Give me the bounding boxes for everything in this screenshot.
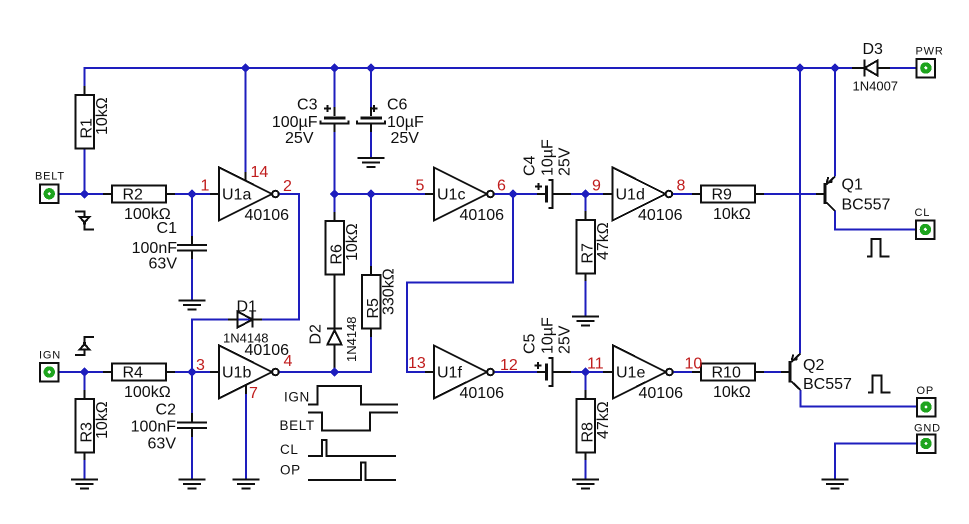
pin 1 label <box>201 178 210 195</box>
pin stub U1d input <box>603 193 613 195</box>
pin 11 label <box>587 356 604 373</box>
svg-text:D1: D1 <box>237 299 258 316</box>
svg-text:2: 2 <box>283 178 292 195</box>
wire U1e output to R10 <box>673 371 701 373</box>
svg-text:D3: D3 <box>863 41 884 58</box>
ground under U1b pin7 <box>233 480 260 489</box>
svg-text:13: 13 <box>408 355 426 372</box>
wire GND pad to ground symbol <box>835 444 916 480</box>
wire Q1 collector to CL pad <box>835 211 916 230</box>
pin stub R3 leads <box>84 390 86 460</box>
wire U1b pin7 to ground <box>245 385 247 480</box>
svg-text:100kΩ: 100kΩ <box>124 384 171 401</box>
wire C6 top drop from rail <box>370 68 372 114</box>
svg-text:10: 10 <box>685 356 703 373</box>
wire rail drop to Q1 emitter <box>834 68 836 177</box>
svg-text:100nF: 100nF <box>131 419 177 436</box>
svg-text:7: 7 <box>249 385 258 402</box>
svg-text:OP: OP <box>917 385 935 397</box>
pin stub U1b input <box>210 371 219 373</box>
wire C3 top drop from rail <box>334 68 336 114</box>
waveform label BELT <box>280 418 315 433</box>
waveform label IGN <box>284 390 310 405</box>
wire R7 top lead <box>585 194 587 220</box>
pin 3 label <box>196 357 205 374</box>
wire R9 to Q1 base <box>755 193 823 195</box>
wire Q2 collector to OP pad <box>801 390 918 407</box>
wire C5 to U1e input node11 <box>553 371 608 373</box>
svg-text:10kΩ: 10kΩ <box>94 401 111 439</box>
wire R8 bottom lead to ground <box>585 453 587 480</box>
wire R1 bottom lead <box>84 149 86 195</box>
resistor R8 47k vertical <box>576 399 612 453</box>
resistor R6 10k vertical <box>325 221 361 275</box>
op-amp U1f inverter <box>434 346 504 403</box>
junction node 5 C3/R6 <box>330 189 339 198</box>
resistor R10 10k <box>701 364 755 402</box>
pad BELT <box>35 171 65 204</box>
svg-text:BELT: BELT <box>35 171 65 183</box>
svg-text:3: 3 <box>196 357 205 374</box>
svg-text:100nF: 100nF <box>132 240 178 257</box>
svg-text:R4: R4 <box>123 365 144 382</box>
pin 2 label <box>283 178 292 195</box>
resistor R5 330k vertical <box>362 268 398 328</box>
svg-text:40106: 40106 <box>460 207 505 224</box>
svg-text:D2: D2 <box>308 324 325 345</box>
svg-text:1: 1 <box>201 178 210 195</box>
wire R3 bottom lead to ground <box>84 453 86 480</box>
wire U1d output to R9 <box>673 193 701 195</box>
junction node IGN/R3/R4 <box>80 367 89 376</box>
ground under C1 <box>179 301 206 310</box>
svg-text:Q2: Q2 <box>803 357 824 374</box>
pin stub R9 leads <box>692 193 764 195</box>
op-amp U1b inverter <box>219 342 289 399</box>
ground under R8 <box>572 480 599 489</box>
svg-text:IGN: IGN <box>284 390 310 405</box>
svg-text:25V: 25V <box>557 325 574 354</box>
wire D1 anode to node 3 <box>192 320 250 373</box>
svg-text:10kΩ: 10kΩ <box>94 97 111 135</box>
pin stub Q2 base <box>781 371 789 373</box>
resistor R2 100k <box>112 186 171 224</box>
pin stub R5 leads <box>370 266 372 337</box>
pin stub R10 leads <box>692 371 764 373</box>
wire node5 rail C3-R6-R5 to U1c <box>335 123 431 275</box>
svg-text:10µF: 10µF <box>540 317 557 354</box>
pad GND <box>914 423 941 453</box>
capacitor C5 10uF polarized <box>522 317 574 386</box>
pin stub D3 leads <box>852 67 890 69</box>
svg-text:C5: C5 <box>522 333 539 354</box>
resistor R9 10k <box>701 186 755 224</box>
svg-text:U1d: U1d <box>616 187 645 204</box>
ground under R7 <box>572 317 599 326</box>
svg-text:47kΩ: 47kΩ <box>595 222 612 260</box>
svg-text:40106: 40106 <box>245 342 290 359</box>
wire R6 to D2 cathode <box>334 275 336 329</box>
ground under C6 <box>358 158 385 167</box>
pin stub R7 leads <box>585 211 587 281</box>
op-amp U1c inverter <box>434 168 504 225</box>
op-amp U1d inverter <box>613 168 683 225</box>
wire C6 bottom lead to ground <box>370 123 372 158</box>
capacitor C6 10uF polarized <box>357 97 424 148</box>
pin 14 label <box>251 164 269 181</box>
pin stub U1c input <box>425 193 434 195</box>
pin stub R6 leads <box>334 212 336 221</box>
pin stub C2 leads <box>191 413 193 437</box>
op-amp U1e inverter <box>613 346 683 403</box>
pin 5 label <box>416 178 425 195</box>
svg-text:1N4007: 1N4007 <box>853 79 899 94</box>
pad OP <box>917 385 936 416</box>
svg-text:25V: 25V <box>285 130 314 147</box>
svg-text:U1e: U1e <box>616 365 645 382</box>
junction node BELT/R1/R2 <box>80 189 89 198</box>
svg-text:40106: 40106 <box>639 385 684 402</box>
diode D2 1N4148 vertical <box>308 316 360 362</box>
svg-text:C6: C6 <box>387 97 408 114</box>
transistor Q1 BC557 <box>824 177 891 214</box>
svg-text:U1c: U1c <box>437 187 465 204</box>
junction node 11 C5/R8/U1e <box>581 367 590 376</box>
svg-text:10kΩ: 10kΩ <box>713 206 751 223</box>
junction node 5 R5 <box>366 189 375 198</box>
svg-text:PWR: PWR <box>916 46 944 58</box>
svg-text:8: 8 <box>677 178 686 195</box>
svg-text:R7: R7 <box>580 243 597 264</box>
wire U1a output to D1 feedback <box>240 194 299 320</box>
svg-text:47kΩ: 47kΩ <box>595 401 612 439</box>
waveform trace CL <box>308 440 396 456</box>
svg-text:11: 11 <box>587 356 604 373</box>
svg-text:R5: R5 <box>365 298 382 319</box>
waveform label CL <box>280 442 298 457</box>
svg-text:GND: GND <box>914 423 941 435</box>
pad IGN <box>39 350 61 382</box>
waveform trace IGN <box>308 386 398 405</box>
wire U1a pin14 drop from rail <box>245 68 247 176</box>
svg-text:63V: 63V <box>148 436 177 453</box>
junction junction rail Q2 <box>795 63 804 72</box>
pin stub U1b pin7 <box>245 385 247 394</box>
resistor R3 10k vertical <box>75 399 111 453</box>
junction junction rail pin14 <box>241 63 250 72</box>
pad CL <box>915 207 935 239</box>
wire R8 top lead <box>585 372 587 399</box>
svg-text:BELT: BELT <box>280 418 315 433</box>
wire C2 bottom lead to ground <box>191 430 193 480</box>
wire C1 top lead <box>191 194 193 244</box>
pin stub C4 leads <box>537 193 571 195</box>
ground under R3 <box>71 480 98 489</box>
pin stub U1e input <box>603 371 613 373</box>
pin stub D1 leads <box>228 319 262 321</box>
wire U1f output to C5 <box>494 371 545 373</box>
pin stub C1 leads <box>191 236 193 259</box>
svg-text:R8: R8 <box>580 422 597 443</box>
svg-text:14: 14 <box>251 164 269 181</box>
op-amp U1a inverter <box>219 168 289 225</box>
svg-text:R1: R1 <box>79 118 96 139</box>
pin 7 label <box>249 385 258 402</box>
pin stub R8 leads <box>585 390 587 460</box>
svg-text:100µF: 100µF <box>272 114 318 131</box>
waveform label OP <box>280 463 301 478</box>
svg-text:10kΩ: 10kΩ <box>713 384 751 401</box>
pulse glyph at OP output <box>868 376 891 393</box>
svg-text:U1b: U1b <box>222 365 251 382</box>
junction junction rail C6 <box>366 63 375 72</box>
ground GND net <box>822 480 849 489</box>
wire U1c output to C4 <box>494 193 545 195</box>
wire C1 bottom lead to ground <box>191 252 193 301</box>
pin stub R1 top <box>84 86 86 95</box>
svg-text:40106: 40106 <box>638 207 683 224</box>
waveform trace OP <box>308 463 396 481</box>
svg-text:U1f: U1f <box>437 365 462 382</box>
wire R3 top lead <box>84 372 86 399</box>
svg-text:R2: R2 <box>123 187 144 204</box>
capacitor C2 100nF <box>131 402 207 453</box>
svg-text:R6: R6 <box>329 244 346 265</box>
pulse glyph at CL output <box>867 239 890 257</box>
svg-text:10kΩ: 10kΩ <box>344 223 361 261</box>
svg-text:40106: 40106 <box>460 385 505 402</box>
pin 8 label <box>677 178 686 195</box>
capacitor C4 10uF polarized <box>522 139 574 208</box>
wire +V rail corner down to R1 <box>84 67 86 88</box>
wire node6 jog down to U1f pin13 <box>407 194 513 372</box>
svg-text:10µF: 10µF <box>387 114 424 131</box>
pin 10 label <box>685 356 703 373</box>
svg-text:Q1: Q1 <box>842 177 863 194</box>
svg-text:BC557: BC557 <box>842 197 891 214</box>
svg-text:IGN: IGN <box>39 350 61 362</box>
resistor R4 100k <box>112 364 171 402</box>
capacitor C3 100uF polarized <box>272 97 349 148</box>
wire C4 to U1d input node9 <box>553 193 608 195</box>
pin stub C5 leads <box>537 371 571 373</box>
wire D3 cathode to PWR pad <box>879 67 917 69</box>
pin stub U1a pin14 <box>245 172 247 181</box>
pad PWR <box>916 46 944 78</box>
svg-text:330kΩ: 330kΩ <box>381 268 398 315</box>
svg-text:12: 12 <box>500 357 518 374</box>
transistor Q2 BC557 <box>789 354 853 394</box>
switch symbol IGN <box>75 337 94 355</box>
svg-text:10µF: 10µF <box>540 139 557 176</box>
switch symbol BELT <box>75 212 94 230</box>
svg-text:C2: C2 <box>156 402 177 419</box>
svg-text:5: 5 <box>416 178 425 195</box>
svg-text:OP: OP <box>280 463 301 478</box>
svg-text:25V: 25V <box>391 130 420 147</box>
diode D1 1N4148 <box>223 299 269 346</box>
junction node 9 C4/R7/U1d <box>581 189 590 198</box>
junction node 1 R2/C1/U1a <box>187 189 196 198</box>
pin stub C6 leads <box>370 107 372 132</box>
svg-text:25V: 25V <box>557 147 574 176</box>
wire C2 top lead <box>191 372 193 422</box>
pin 9 label <box>592 178 601 195</box>
svg-text:CL: CL <box>280 442 298 457</box>
svg-text:R10: R10 <box>712 365 741 382</box>
svg-text:C4: C4 <box>522 155 539 176</box>
pin stub C3 leads <box>334 107 336 132</box>
svg-text:1N4148: 1N4148 <box>344 316 359 362</box>
pin 13 label <box>408 355 426 372</box>
svg-text:6: 6 <box>497 178 506 195</box>
svg-text:4: 4 <box>284 353 293 370</box>
pin 6 label <box>497 178 506 195</box>
svg-text:9: 9 <box>592 178 601 195</box>
waveform trace BELT <box>308 413 398 431</box>
pin 4 label <box>284 353 293 370</box>
junction node 4 D2 <box>330 367 339 376</box>
pin 12 label <box>500 357 518 374</box>
svg-text:R3: R3 <box>79 422 96 443</box>
junction junction rail Q1 <box>830 63 839 72</box>
pin stub U1f input <box>425 371 434 373</box>
capacitor C1 100nF <box>132 220 207 273</box>
pin stub R2 leads <box>103 193 175 195</box>
junction node 6 junction <box>508 189 517 198</box>
svg-text:C3: C3 <box>297 97 318 114</box>
svg-text:40106: 40106 <box>245 207 290 224</box>
svg-text:CL: CL <box>915 207 931 219</box>
wire R10 to Q2 base <box>755 371 788 373</box>
pin stub U1a input <box>210 193 219 195</box>
pin stub R4 leads <box>103 371 175 373</box>
junction junction rail C3 <box>330 63 339 72</box>
wire BELT row to U1a input <box>58 193 215 195</box>
resistor R1 10k vertical <box>75 95 111 149</box>
wire D2 anode to node 4 <box>334 345 336 373</box>
svg-text:U1a: U1a <box>222 187 251 204</box>
svg-text:BC557: BC557 <box>803 376 852 393</box>
resistor R7 47k vertical <box>576 220 612 274</box>
ground under C2 <box>179 480 206 489</box>
wire +V top rail <box>85 67 853 69</box>
pin stub Q1 base <box>816 193 824 195</box>
svg-text:R9: R9 <box>712 187 733 204</box>
wire U1b output node4 rail <box>280 329 372 372</box>
diode D3 1N4007 <box>853 41 899 94</box>
wire rail drop to Q2 emitter <box>799 68 801 354</box>
svg-text:C1: C1 <box>157 220 178 237</box>
wire IGN row to U1b input <box>58 371 215 373</box>
junction node 3 R4/D1/C2/U1b <box>187 367 196 376</box>
wire R7 bottom lead to ground <box>585 273 587 317</box>
svg-text:63V: 63V <box>149 256 178 273</box>
